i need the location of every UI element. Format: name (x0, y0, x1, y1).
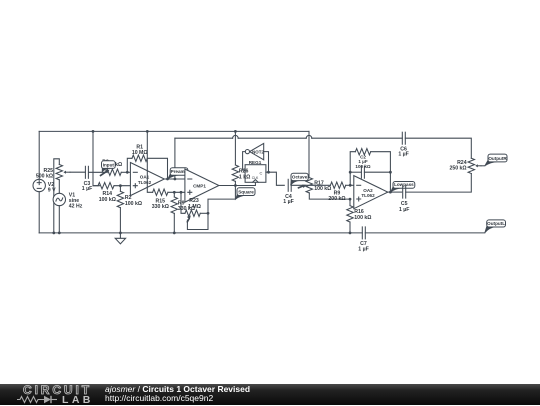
svg-text:Octave: Octave (292, 175, 308, 180)
wire: octave node to R8 with R17 wiper arrow (291, 185, 330, 188)
svg-text:1 MΩ: 1 MΩ (188, 204, 201, 210)
svg-text:OutputR: OutputR (488, 156, 507, 161)
svg-text:1 µF: 1 µF (283, 199, 293, 205)
svg-text:42 Hz: 42 Hz (69, 204, 83, 210)
svg-text:100 kΩ: 100 kΩ (125, 201, 142, 207)
node: CMP1 output node (234, 184, 237, 187)
node: R16 on bottom rail (349, 232, 352, 235)
label R26 1 kOhm (239, 169, 250, 181)
comparator CMP1 (185, 169, 219, 202)
node: R9 on bottom rail (173, 232, 176, 235)
label R1 10 MOhm (132, 144, 148, 156)
node: comparator threshold node (173, 191, 176, 194)
resistor R8 200k (330, 182, 353, 188)
svg-text:REG1: REG1 (249, 160, 262, 165)
label R3 value (102, 160, 122, 168)
svg-text:1 µF: 1 µF (82, 186, 92, 192)
svg-text:1 µF: 1 µF (399, 207, 409, 213)
label R23 1 MOhm (188, 198, 201, 210)
flag OutputL (485, 220, 506, 233)
svg-text:OutputL: OutputL (487, 221, 505, 226)
svg-text:Input: Input (103, 162, 115, 167)
label R17 100 kOhm (314, 181, 331, 193)
svg-text:NOT2: NOT2 (252, 150, 264, 155)
svg-text:TL062: TL062 (361, 193, 375, 198)
svg-text:10 MΩ: 10 MΩ (132, 150, 148, 156)
label C6 1uF (398, 147, 408, 158)
flip-flop REG1 (245, 160, 266, 182)
feedback resistor 100k loop over OA2 (350, 149, 390, 193)
footer branding bar (0, 384, 540, 405)
resistor R1 10M feedback (127, 155, 167, 179)
wire: bias feed from top rail down to R14 (93, 131, 100, 185)
wire: square node drop (208, 186, 235, 214)
node: R25 return on bottom rail (52, 232, 55, 235)
attribution text (105, 385, 250, 405)
wire: top rail drop to R17 pot top (308, 131, 310, 177)
wire: left supply riser from V2 to top rail (38, 131, 40, 179)
potentiometer R25 500k (input level) (54, 159, 70, 233)
label R25 500 kOhm (36, 168, 53, 180)
node: OA2 inverting input node (349, 184, 352, 187)
node: octave mix input node (349, 198, 352, 201)
op-amp OA1 TL062 (130, 163, 164, 196)
svg-text:Square: Square (238, 189, 254, 194)
node: feedback left junctions (349, 171, 392, 174)
svg-text:kΩ: kΩ (115, 162, 122, 168)
wire: REG1 Q to NOT2 input (264, 152, 269, 173)
node: hysteresis tap (180, 191, 183, 194)
svg-text:C: C (260, 170, 263, 175)
inverter NOT2 (245, 143, 264, 159)
svg-text:100 kΩ: 100 kΩ (355, 164, 370, 169)
potentiometer R3 (Input level) (101, 169, 131, 175)
svg-text:1 µF: 1 µF (398, 151, 408, 157)
svg-text:500 kΩ: 500 kΩ (36, 174, 53, 180)
label R16 100 kOhm (354, 209, 371, 221)
op-amp OA2 TL062 (354, 176, 388, 209)
potentiometer R23 1M hysteresis (181, 192, 208, 229)
label R8 200 kOhm (328, 191, 345, 203)
resistor R15 330k (153, 189, 185, 195)
svg-text:100 kΩ: 100 kΩ (314, 186, 331, 192)
label R2 100 kOhm (125, 195, 142, 207)
flag OutputR (485, 154, 508, 166)
capacitor C7 1uF in bottom rail (362, 227, 365, 239)
node: OA1 inverting input node (126, 171, 129, 174)
ground (115, 233, 125, 244)
logo resistor-diode glyph (0, 384, 100, 405)
flag Preamp (168, 168, 188, 179)
svg-text:Lowpass: Lowpass (394, 182, 414, 187)
resistor R2 100k to ground (117, 186, 123, 233)
wire: REG1 output to C4 (269, 172, 285, 185)
resistor R14 100k (93, 183, 130, 189)
wire: preamp output riser to clean bus (174, 138, 176, 179)
node: R23 to square bus (207, 212, 210, 215)
svg-text:200 kΩ: 200 kΩ (328, 196, 345, 202)
wire: R25 wiper to C3 (70, 171, 85, 173)
wire: bottom rail right of C7 to OutputL (365, 232, 485, 234)
label C3 1uF (82, 181, 92, 192)
svg-text:100 kΩ: 100 kΩ (99, 197, 116, 203)
flag Lowpass (391, 182, 415, 193)
label R15 330 kOhm (152, 199, 169, 211)
wire: R15 feed from top rail (crosses OA1 symbol) (147, 131, 152, 192)
potentiometer R24 250k (output blend) (468, 158, 481, 173)
wire: ground bottom rail (left of C7) (39, 232, 362, 234)
flag Input (102, 161, 116, 172)
capacitor C2 1uF feedback (350, 166, 390, 178)
node: OA1 non-inverting bias node (119, 184, 122, 187)
label R14 100 kOhm (99, 191, 116, 203)
label V2 9 V (48, 182, 56, 193)
wire: +9V top rail (39, 130, 309, 132)
resistor R9 330k to ground (171, 192, 177, 233)
flag Square (236, 188, 255, 199)
voltage source V1 sine 42 Hz (53, 180, 65, 233)
capacitor C4 1uF (288, 179, 291, 191)
wire: bottom rail V2 drop (38, 192, 40, 233)
node: top rail junction to R26 pull-up (234, 130, 237, 133)
svg-text:330 kΩ: 330 kΩ (152, 204, 169, 210)
label C4 1uF (283, 194, 293, 205)
resistor R26 1k pull-up (232, 131, 238, 185)
voltage source V2 9V battery (33, 179, 45, 191)
wire: CMP1 output to REG1 clock (219, 182, 256, 185)
node: lowpass output node (389, 191, 392, 194)
svg-text:1 µF: 1 µF (358, 246, 368, 252)
svg-text:9 V: 9 V (48, 187, 56, 193)
potentiometer R17 100k (octave level) (306, 178, 350, 200)
node: top rail junction to R15 (146, 130, 149, 133)
node: top rail junction to R14 bias (92, 130, 95, 133)
node: V1 on bottom rail (58, 232, 61, 235)
wire: OA1 output to CMP1 inverting input (164, 178, 185, 180)
capacitor C6 1uF (402, 132, 405, 144)
wire: C5 to R24 bottom (406, 174, 472, 193)
label R24 250 kOhm (449, 160, 466, 172)
CircuitLab logo wordmark (23, 385, 92, 396)
node: REG1 output node (267, 171, 270, 174)
flag Octave (291, 173, 309, 185)
node: preamp output node (166, 178, 176, 181)
wire: clean bus from C6 to R24 top (405, 138, 471, 158)
capacitor C5 1uF (403, 186, 406, 198)
svg-text:100 kΩ: 100 kΩ (354, 215, 371, 221)
node: R2 on bottom rail (119, 232, 122, 235)
wire: NOT2 output to REG1 D input (243, 152, 246, 171)
label C5 1uF (399, 201, 409, 213)
resistor R16 100k to ground (347, 199, 353, 233)
wire: OA2 output (388, 191, 402, 193)
label C7 1uF (358, 241, 368, 252)
label R9 330 kOhm (178, 201, 195, 213)
svg-text:TL062: TL062 (138, 180, 152, 185)
svg-text:250 kΩ: 250 kΩ (449, 166, 466, 172)
wire: clean signal bus (preamp to C6) (175, 135, 402, 138)
svg-text:1 kΩ: 1 kΩ (239, 174, 250, 180)
wire: C3 to R3 pot (89, 171, 107, 173)
capacitor C3 1uF (85, 166, 88, 178)
label V1 sine 42 Hz (69, 193, 83, 210)
wire: R24 wiper to OutputR (481, 165, 485, 167)
svg-text:CMP1: CMP1 (193, 183, 206, 188)
label C2 1uF 100 kOhm (355, 155, 370, 169)
